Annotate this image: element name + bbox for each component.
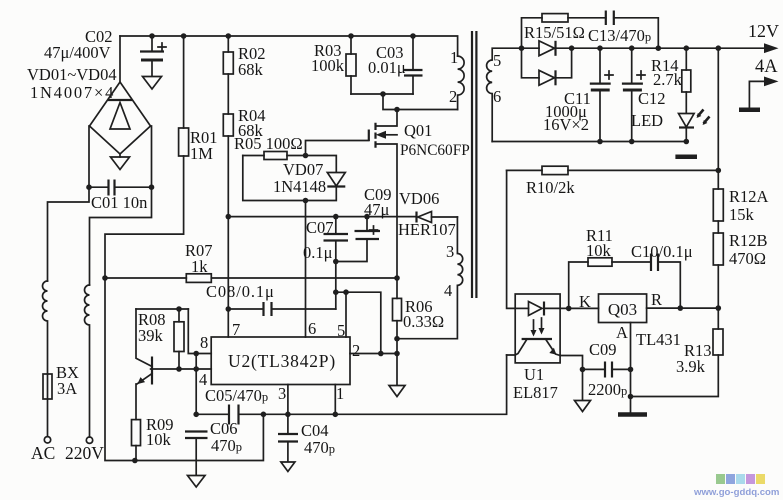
resistor R03 — [346, 36, 356, 94]
IC Q03 TL431 — [599, 294, 647, 323]
svg-text:2200p: 2200p — [588, 380, 627, 399]
svg-text:LED: LED — [631, 111, 663, 130]
svg-text:HER107: HER107 — [398, 220, 456, 239]
svg-text:470Ω: 470Ω — [729, 249, 766, 268]
transformer T aux winding 3-4 — [397, 217, 463, 339]
capacitor C01 — [89, 126, 152, 196]
capacitor C07 — [324, 217, 349, 262]
svg-text:2: 2 — [352, 341, 360, 360]
svg-text:4: 4 — [444, 281, 452, 300]
wire: R node — [647, 307, 719, 309]
capacitor C04 — [278, 434, 298, 462]
ground (TL431, bar) — [618, 412, 647, 417]
svg-text:470p: 470p — [304, 438, 335, 457]
svg-text:470p: 470p — [211, 436, 242, 455]
capacitor C10 — [651, 254, 680, 309]
svg-text:1: 1 — [450, 48, 458, 67]
ground (4A return, bar) — [739, 108, 760, 113]
capacitor C09 2200p — [583, 362, 631, 378]
resistor R02 — [223, 36, 233, 74]
terminal AC — [44, 437, 50, 443]
svg-text:1k: 1k — [191, 257, 208, 276]
wire: snubber bottom — [351, 94, 458, 110]
wire: C01 right / bridge right to choke 2 — [90, 126, 152, 285]
capacitor C06 — [185, 432, 208, 476]
LED — [679, 110, 710, 142]
svg-text:C13/470p: C13/470p — [588, 26, 651, 45]
capacitor C03 — [404, 36, 423, 94]
svg-text:1N4148: 1N4148 — [273, 177, 326, 196]
svg-text:R: R — [651, 290, 662, 309]
ground (below C04) — [281, 462, 295, 472]
svg-text:VD01~VD04: VD01~VD04 — [27, 65, 117, 84]
resistor R08 — [136, 309, 188, 369]
ground (below C06) — [188, 476, 206, 488]
svg-text:3.9k: 3.9k — [676, 357, 706, 376]
svg-text:C08/0.1μ: C08/0.1μ — [206, 282, 275, 301]
svg-text:0.33Ω: 0.33Ω — [403, 312, 444, 331]
svg-text:Q01: Q01 — [404, 121, 432, 140]
wire: K node — [560, 307, 598, 309]
transformer T primary 1-2 — [458, 56, 465, 109]
svg-text:0.01μ: 0.01μ — [368, 58, 406, 77]
svg-text:3A: 3A — [57, 379, 77, 398]
svg-text:1: 1 — [336, 384, 344, 403]
resistor R09 — [132, 420, 141, 461]
wire: pin8 stub — [188, 309, 211, 354]
svg-text:VD06: VD06 — [399, 189, 439, 208]
svg-text:C09: C09 — [589, 340, 617, 359]
ground (opto emitter) — [575, 401, 591, 412]
svg-text:R05 100Ω: R05 100Ω — [234, 134, 303, 153]
resistor R12B — [713, 221, 723, 329]
transformer T secondary 5-6 — [487, 48, 522, 141]
svg-text:6: 6 — [493, 87, 501, 106]
svg-text:P6NC60FP: P6NC60FP — [400, 142, 470, 159]
wire: Vcc node — [228, 216, 416, 218]
capacitor C05 — [229, 405, 239, 425]
resistor R06 — [393, 278, 402, 385]
svg-text:C05/470p: C05/470p — [205, 386, 268, 405]
transistor Q02 (protection BJT) — [136, 309, 152, 420]
wire: gnd column C07/C09 to pin5/pin2 — [336, 262, 381, 354]
capacitor C11 — [590, 48, 613, 141]
diode VD (rectifier top) — [522, 41, 556, 56]
svg-text:5: 5 — [337, 321, 345, 340]
wire: base / pin4 — [151, 354, 212, 415]
diode VD (rectifier bottom) — [522, 48, 572, 85]
svg-text:C10/0.1μ: C10/0.1μ — [631, 242, 693, 261]
resistor R14 — [682, 48, 691, 113]
wire: gate drive riser and pin6 column — [306, 141, 369, 338]
capacitor C08 — [228, 302, 335, 316]
resistor R13 — [631, 329, 724, 397]
resistor R11 — [569, 258, 651, 309]
svg-text:A: A — [616, 323, 628, 342]
fuse BX 3A — [43, 374, 52, 437]
optocoupler U1 EL817 — [507, 294, 583, 400]
watermark logo — [716, 474, 765, 484]
svg-text:R12B: R12B — [729, 231, 768, 250]
IC U2 TL3842P — [211, 337, 350, 385]
resistor R10 — [507, 166, 719, 308]
transistor Q01 MOSFET — [369, 110, 397, 279]
svg-text:6: 6 — [308, 319, 316, 338]
wire: secondary return rail — [492, 141, 685, 143]
svg-text:47μ/400V: 47μ/400V — [44, 43, 111, 62]
transformer core — [472, 31, 476, 298]
wire: C05 row / pin1 row — [196, 355, 506, 414]
diode VD06 HER107 — [417, 212, 458, 223]
svg-text:2.7k: 2.7k — [653, 70, 683, 89]
svg-text:R10/2k: R10/2k — [526, 178, 575, 197]
capacitor C09 47u — [336, 217, 380, 262]
resistor R15 — [522, 14, 606, 49]
svg-text:EL817: EL817 — [513, 383, 558, 402]
svg-text:10k: 10k — [586, 241, 612, 260]
wire: 12V rail with arrow — [556, 47, 767, 49]
wire: top DC+ rail — [120, 36, 458, 56]
capacitor C13 — [606, 11, 659, 49]
svg-text:5: 5 — [493, 51, 501, 70]
svg-text:1M: 1M — [190, 144, 213, 163]
svg-text:C01 10n: C01 10n — [91, 193, 147, 212]
resistor R04 — [223, 74, 233, 337]
svg-text:3: 3 — [446, 242, 454, 261]
svg-text:C07: C07 — [306, 218, 334, 237]
resistor R01 — [105, 36, 263, 461]
bridge rectifier VD01-VD04 — [90, 36, 151, 170]
svg-text:0.1μ: 0.1μ — [303, 243, 333, 262]
wire: pin1 stub — [334, 385, 336, 415]
svg-text:1N4007×4: 1N4007×4 — [30, 83, 115, 102]
svg-text:U2(TL3842P): U2(TL3842P) — [228, 351, 336, 371]
terminal 220V — [86, 437, 92, 443]
svg-text:U1: U1 — [524, 365, 544, 384]
svg-text:TL431: TL431 — [636, 330, 681, 349]
svg-text:10k: 10k — [146, 430, 172, 449]
svg-text:3: 3 — [278, 384, 286, 403]
capacitor C12 — [622, 48, 645, 141]
svg-text:16V×2: 16V×2 — [543, 115, 589, 134]
svg-text:68k: 68k — [238, 60, 264, 79]
svg-text:12V: 12V — [748, 21, 779, 41]
wire: pin2 stub — [350, 353, 397, 355]
svg-text:100k: 100k — [311, 56, 345, 75]
wire: A column — [630, 323, 632, 413]
svg-text:Q03: Q03 — [608, 300, 637, 319]
svg-text:2: 2 — [449, 87, 457, 106]
ground (below R06) — [389, 386, 405, 397]
svg-text:39k: 39k — [138, 326, 164, 345]
svg-text:220V: 220V — [65, 443, 104, 463]
resistor R05 loop with VD07 — [243, 152, 336, 201]
svg-text:www.go-gddq.com: www.go-gddq.com — [693, 487, 779, 498]
svg-text:R15/51Ω: R15/51Ω — [524, 23, 585, 42]
svg-text:7: 7 — [232, 320, 240, 339]
wire: pin3 column — [287, 385, 289, 435]
inductor choke L1b — [85, 285, 90, 437]
ground (secondary, bar) — [675, 155, 697, 160]
inductor choke L1a — [43, 281, 48, 374]
diode VD07 — [327, 173, 345, 187]
svg-text:C12: C12 — [638, 89, 666, 108]
svg-text:AC: AC — [31, 443, 55, 463]
svg-text:R12A: R12A — [729, 187, 769, 206]
svg-text:15k: 15k — [729, 205, 755, 224]
wire: C01 left to choke 1 — [48, 187, 90, 281]
resistor R12A — [713, 48, 723, 221]
4A output arrow — [749, 81, 766, 107]
svg-text:8: 8 — [200, 333, 208, 352]
capacitor C02 — [140, 36, 166, 89]
resistor R07 — [105, 274, 397, 283]
svg-text:4A: 4A — [755, 57, 778, 77]
